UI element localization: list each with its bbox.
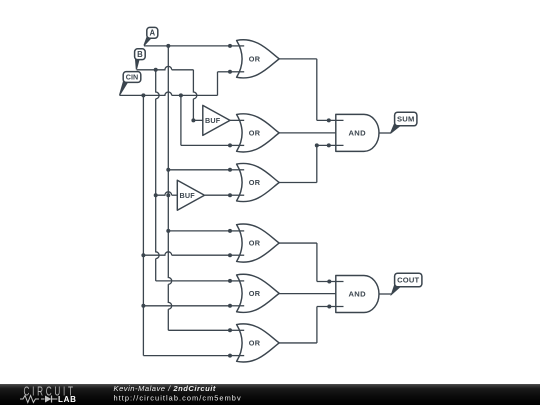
svg-text:Kevin-Malave / 2ndCircuit: Kevin-Malave / 2ndCircuit <box>114 384 216 393</box>
svg-text:LAB: LAB <box>58 395 77 404</box>
svg-text:B: B <box>137 50 143 59</box>
svg-text:CIN: CIN <box>126 73 138 82</box>
svg-text:OR: OR <box>249 289 261 298</box>
svg-text:OR: OR <box>249 239 261 248</box>
svg-text:A: A <box>149 29 155 38</box>
svg-text:OR: OR <box>249 54 261 63</box>
svg-text:BUF: BUF <box>180 191 196 200</box>
svg-text:OR: OR <box>249 129 261 138</box>
svg-text:SUM: SUM <box>397 115 414 124</box>
svg-text:http://circuitlab.com/cm5embv: http://circuitlab.com/cm5embv <box>114 394 242 403</box>
svg-text:AND: AND <box>349 290 367 299</box>
svg-text:BUF: BUF <box>205 116 221 125</box>
svg-text:AND: AND <box>349 129 367 138</box>
svg-text:COUT: COUT <box>397 276 419 285</box>
svg-text:OR: OR <box>249 339 261 348</box>
svg-text:OR: OR <box>249 178 261 187</box>
